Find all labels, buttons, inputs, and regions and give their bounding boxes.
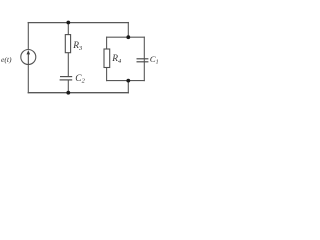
voltage source e(t) U1 [21, 50, 36, 65]
wire right loop bottom [107, 80, 145, 82]
wire C1 lead [143, 37, 145, 80]
node junction dot top R3 [66, 21, 70, 25]
svg-text:C2: C2 [75, 74, 85, 85]
svg-text:R3: R3 [72, 41, 82, 52]
wire top horizontal [28, 22, 128, 24]
wire right loop top [107, 36, 145, 38]
capacitor C2 [60, 77, 73, 80]
resistor R4 [104, 49, 110, 68]
wire R3 branch upper [67, 23, 69, 35]
resistor R3 [65, 35, 70, 53]
wire R4 branch upper [106, 37, 108, 49]
svg-text:R4: R4 [111, 54, 122, 65]
node junction dot bottom R3 [66, 91, 70, 95]
node junction dot right loop bottom [126, 79, 130, 83]
wire bottom horizontal [28, 92, 128, 94]
wire R3 branch lower [67, 80, 69, 93]
wire R4 branch lower [106, 68, 108, 81]
wire right drop bottom (from right loop) [127, 81, 129, 93]
capacitor C1 [137, 59, 149, 62]
source arrow [27, 50, 31, 64]
wire left lower (source to bottom wire) [27, 65, 29, 93]
svg-text:C1: C1 [150, 54, 159, 66]
svg-text:e(t): e(t) [1, 55, 12, 64]
wire right drop top (to right loop) [127, 23, 129, 38]
wire R3 branch middle [67, 53, 69, 77]
wire left upper (source to top wire) [27, 23, 29, 50]
node junction dot right loop top [126, 35, 130, 39]
